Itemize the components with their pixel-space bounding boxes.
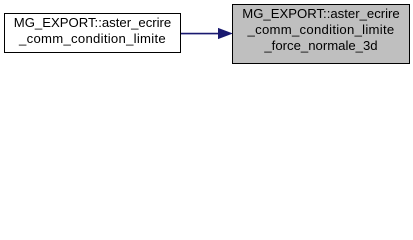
- node B: current function MG_EXPORT::aster_ecrire_comm_condition_limite_force_normale_3d: [232, 4, 410, 64]
- node A: caller MG_EXPORT::aster_ecrire_comm_condition_limite: [4, 13, 181, 53]
- wire: call edge from caller to callee: [0, 0, 413, 67]
